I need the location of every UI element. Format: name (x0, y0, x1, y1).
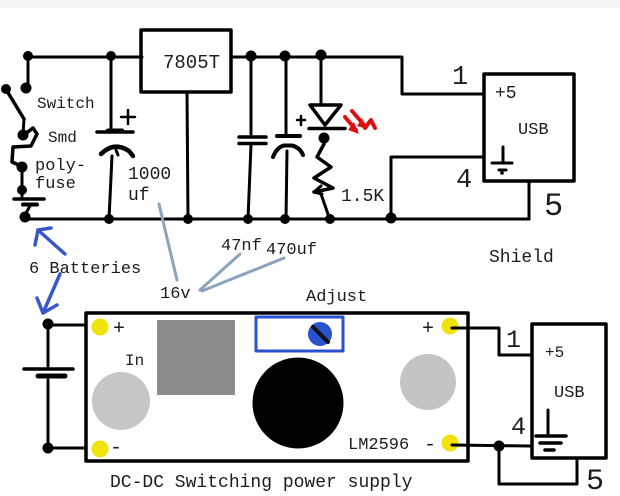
pin 5 label (top) (544, 188, 563, 225)
svg-text:USB: USB (554, 384, 585, 403)
wire top rail left (27, 56, 142, 59)
label In (125, 352, 144, 370)
ground symbol J2 (536, 410, 566, 450)
svg-text:-: - (424, 434, 436, 457)
regulator U1 7805T (141, 30, 231, 92)
annotation pointer lines (159, 204, 284, 291)
svg-text:470uf: 470uf (266, 241, 317, 260)
svg-text:4: 4 (511, 413, 526, 442)
svg-text:6 Batteries: 6 Batteries (29, 260, 141, 279)
svg-text:+5: +5 (545, 344, 564, 362)
blue arrow to battery minus rail (35, 228, 65, 254)
wire polyfuse to battery (17, 167, 27, 196)
capacitor right (gray) (400, 354, 456, 410)
pin 1 label (bottom) (506, 326, 521, 355)
label Switch (37, 95, 95, 113)
capacitor left (gray) (92, 372, 150, 430)
svg-text:+: + (113, 318, 125, 341)
pad Out + (442, 318, 459, 335)
label DC-DC Switching power supply (110, 473, 413, 493)
label 1000 uf (128, 165, 171, 206)
battery B1 (14, 199, 44, 215)
label - (in) (110, 437, 122, 460)
svg-text:7805T: 7805T (163, 52, 220, 74)
resistor R1 (314, 138, 335, 224)
svg-text:16v: 16v (160, 285, 191, 304)
pad Out - (442, 435, 459, 452)
svg-text:1: 1 (506, 326, 521, 355)
main capacitor (black) (253, 358, 344, 449)
svg-text:In: In (125, 352, 144, 370)
svg-text:Smd: Smd (48, 129, 77, 147)
wire pin 5 (bottom) (499, 446, 577, 484)
pad In - (92, 441, 109, 458)
svg-text:4: 4 (456, 166, 472, 196)
label Shield (489, 248, 554, 268)
LED light arrows (red) (345, 111, 375, 134)
label 6 Batteries (29, 260, 141, 279)
label LM2596 (348, 436, 409, 455)
label + (out) (422, 318, 434, 341)
svg-text:uf: uf (128, 186, 150, 206)
capacitor C3 470uf electrolytic (273, 51, 305, 225)
LED D1 (309, 50, 345, 144)
svg-text:-: - (110, 437, 122, 460)
svg-text:+: + (422, 318, 434, 341)
switch SW1 (1, 83, 32, 120)
wire pin 4 (386, 157, 485, 224)
trimpot Adjust (256, 317, 343, 351)
pad In + (92, 319, 109, 336)
svg-text:1: 1 (452, 63, 468, 93)
svg-text:5: 5 (586, 465, 604, 496)
faint scan band top edge (not a component) (0, 0, 620, 8)
pin 5 label (bottom) (586, 465, 604, 496)
svg-text:fuse: fuse (35, 175, 76, 194)
svg-text:47nf: 47nf (221, 237, 262, 256)
svg-text:Adjust: Adjust (306, 288, 367, 307)
ground symbol J1 (492, 147, 512, 175)
wire out plus to USB (452, 328, 533, 355)
wire switch to polyfuse (23, 119, 24, 134)
wire top rail right (231, 57, 482, 94)
svg-text:Shield: Shield (489, 248, 554, 268)
label - (out) (424, 434, 436, 457)
svg-text:1000: 1000 (128, 165, 171, 185)
label poly-fuse (35, 157, 86, 194)
battery pack B2 (24, 319, 73, 454)
wire pin 5 shield (528, 181, 531, 219)
capacitor C2 47nf (239, 51, 266, 225)
svg-text:LM2596: LM2596 (348, 436, 409, 455)
svg-text:poly-: poly- (35, 157, 86, 176)
inductor (gray block) (157, 320, 235, 395)
svg-text:USB: USB (518, 121, 549, 140)
node bottom-left corner (20, 212, 31, 223)
svg-text:5: 5 (544, 188, 563, 225)
polyfuse F1 (12, 128, 37, 173)
wire out minus to USB (452, 441, 532, 452)
label 1.5K (341, 187, 384, 207)
pin 4 label (top) (456, 166, 472, 196)
pin 1 label (top) (452, 63, 468, 93)
blue arrow to battery pack (37, 274, 60, 313)
svg-text:Switch: Switch (37, 95, 95, 113)
wire battery minus to module (48, 447, 98, 450)
USB connector J1 (484, 74, 574, 181)
wire battery plus to module (48, 324, 98, 327)
DC-DC module board (86, 313, 468, 461)
svg-text:1.5K: 1.5K (341, 187, 384, 207)
capacitor C1 1000uf electrolytic (97, 51, 135, 224)
label + (in) (113, 318, 125, 341)
label Smd (48, 129, 77, 147)
label 470uf (266, 241, 317, 260)
svg-text:+5: +5 (495, 84, 517, 104)
label Adjust (306, 288, 367, 307)
wire bottom rail (25, 218, 529, 221)
USB connector J2 (532, 324, 606, 458)
pin 4 label (bottom) (511, 413, 526, 442)
node top-left corner (23, 51, 33, 85)
label 16v (160, 285, 191, 304)
label 47nf (221, 237, 262, 256)
wire 7805 ground pin (183, 92, 193, 224)
svg-text:DC-DC Switching power supply: DC-DC Switching power supply (110, 473, 413, 493)
